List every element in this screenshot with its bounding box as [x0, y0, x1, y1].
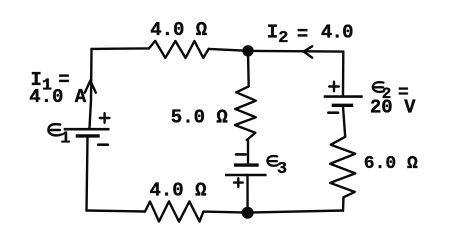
arrowhead I1 (points up on left wire) [85, 81, 96, 93]
wire top left segment [92, 47, 150, 50]
minus sign battery U3 [236, 153, 246, 156]
wire top right segment [248, 50, 343, 53]
battery U1 plate short (-) [76, 134, 100, 137]
resistor R2 5.0 ohm middle [235, 86, 256, 140]
wire middle vertical upper segment [247, 51, 250, 87]
wire middle segment below resistor [247, 140, 249, 164]
svg-text:4.0 Ω: 4.0 Ω [150, 179, 207, 201]
battery U3 plate long (+) bottom [225, 174, 267, 177]
resistor R1 4.0 ohm top [149, 41, 209, 58]
wire bottom right segment [248, 211, 343, 213]
svg-text:=: = [297, 24, 308, 46]
wire right vertical bottom stub [342, 197, 345, 211]
svg-text:3: 3 [277, 160, 287, 179]
epsilon E2 glyph [373, 82, 384, 92]
wire top middle segment [209, 49, 248, 51]
resistor R4 4.0 ohm bottom [145, 201, 203, 221]
plus sign battery U3 [234, 178, 243, 187]
battery U3 plate short (-) top [234, 163, 259, 166]
node junction bottom [242, 207, 254, 219]
battery U2 plate long (+) [324, 95, 363, 98]
minus sign battery U1 [98, 143, 108, 146]
svg-text:4.0 Ω: 4.0 Ω [150, 19, 207, 41]
wire left vertical top segment [90, 49, 92, 128]
plus sign battery U1 [100, 113, 110, 123]
svg-text:5.0 Ω: 5.0 Ω [171, 107, 228, 129]
epsilon E3 glyph [267, 156, 277, 166]
wire middle vertical lower segment [246, 175, 249, 213]
battery U2 plate short (-) [332, 104, 354, 107]
epsilon E1 glyph [49, 124, 61, 135]
wire bottom middle segment [203, 212, 247, 213]
arrowhead I2 (points left) [304, 46, 313, 57]
wire right vertical middle segment [343, 107, 345, 137]
svg-text:I2: I2 [267, 21, 289, 48]
battery U1 plate long (+) [64, 128, 110, 131]
wire right vertical upper segment [342, 52, 345, 96]
svg-text:4.0: 4.0 [321, 22, 353, 44]
wire bottom left segment [87, 211, 146, 212]
svg-text:4.0 A: 4.0 A [29, 86, 87, 108]
wire left vertical bottom segment [87, 138, 88, 211]
plus sign battery U2 [329, 82, 339, 92]
resistor R3 6.0 ohm right [330, 137, 355, 198]
node junction top [242, 45, 253, 56]
minus sign battery U2 [328, 111, 338, 114]
svg-text:6.0 Ω: 6.0 Ω [364, 154, 418, 174]
svg-text:20 V: 20 V [370, 97, 416, 119]
svg-text:1: 1 [60, 129, 70, 148]
